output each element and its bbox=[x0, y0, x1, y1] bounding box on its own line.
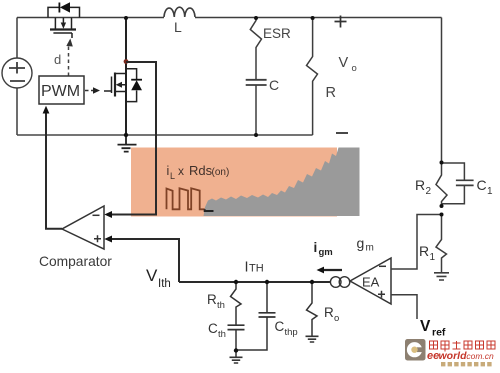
svg-text:R: R bbox=[324, 305, 334, 320]
node junction bottom rail / Q2 source ground bbox=[124, 133, 128, 137]
svg-text:i: i bbox=[314, 240, 318, 255]
capacitor Cth bbox=[208, 321, 245, 351]
svg-text:C: C bbox=[208, 321, 218, 336]
node label d bbox=[54, 52, 61, 67]
voltage source V_in bbox=[2, 58, 32, 88]
svg-text:1: 1 bbox=[430, 252, 436, 263]
node - output bbox=[336, 132, 348, 134]
svg-text:world: world bbox=[439, 350, 468, 362]
svg-text:Rds: Rds bbox=[189, 163, 213, 178]
watermark chinese title blocks bbox=[430, 341, 496, 352]
wire EA + input to Vref bbox=[391, 295, 417, 319]
svg-text:d: d bbox=[54, 52, 61, 67]
op-amp EA error amplifier bbox=[350, 258, 391, 304]
node R2 bottom / C1 bbox=[440, 204, 444, 208]
wire bottom rail bbox=[17, 134, 313, 136]
svg-text:g: g bbox=[357, 235, 365, 251]
ground under Cth bbox=[230, 351, 243, 364]
label V_Ith bbox=[146, 266, 171, 290]
watermark eeworld.com.cn bbox=[427, 350, 494, 362]
svg-text:x: x bbox=[178, 164, 184, 178]
label Vref bbox=[420, 318, 446, 339]
ground under R1 bbox=[434, 273, 449, 280]
svg-text:thp: thp bbox=[285, 327, 298, 338]
node ITH / Ro branch bbox=[310, 280, 314, 284]
current source gm output bbox=[330, 277, 349, 288]
resistor ESR bbox=[250, 18, 291, 79]
svg-text:th: th bbox=[217, 300, 225, 311]
node divider tap to EA - bbox=[440, 213, 444, 217]
svg-text:R: R bbox=[415, 177, 425, 193]
label i_gm with arrow bbox=[314, 240, 343, 273]
svg-text:th: th bbox=[218, 329, 226, 340]
capacitor Cthp bbox=[236, 282, 298, 350]
svg-text:2: 2 bbox=[426, 186, 432, 197]
svg-text:m: m bbox=[366, 243, 374, 254]
comparator U2 bbox=[62, 206, 104, 249]
node ITH / Cthp branch bbox=[265, 280, 269, 284]
svg-text:i: i bbox=[167, 164, 170, 178]
wire dashed gate d bbox=[66, 39, 73, 77]
transistor Q2 NMOS low-side bbox=[104, 18, 126, 136]
ground under Q2 bbox=[118, 135, 137, 152]
wire right feedback vertical bbox=[441, 18, 443, 163]
resistor R load bbox=[307, 18, 336, 135]
svg-text:L: L bbox=[170, 171, 175, 181]
svg-text:ref: ref bbox=[432, 327, 446, 339]
capacitor C output bbox=[246, 77, 279, 135]
transistor Q1 PMOS high-side bbox=[50, 18, 76, 39]
wire left vertical input bbox=[16, 18, 18, 136]
svg-text:Ith: Ith bbox=[158, 278, 171, 290]
wire comparator output to PWM bbox=[43, 106, 62, 229]
wire V_Ith to comparator + bbox=[104, 236, 179, 283]
watermark gray blob bbox=[204, 148, 360, 217]
svg-text:Comparator: Comparator bbox=[39, 254, 112, 269]
ground under Ro bbox=[306, 336, 319, 342]
wire ITH rail bbox=[179, 281, 331, 283]
node junction top rail / ESR branch bbox=[254, 16, 258, 20]
resistor Rth bbox=[207, 282, 241, 325]
svg-text:ESR: ESR bbox=[263, 26, 291, 41]
node ITH / Rth branch bbox=[234, 280, 238, 284]
svg-text:R: R bbox=[419, 243, 429, 259]
node junction top rail / Q2 drain bbox=[124, 16, 128, 20]
waveform iL x Rds(on) bbox=[167, 188, 205, 209]
svg-text:V: V bbox=[420, 318, 431, 335]
wire top rail bbox=[17, 17, 442, 19]
watermark eeworld logo bbox=[405, 339, 426, 361]
resistor R2 bbox=[415, 163, 447, 207]
node junction bottom rail / C branch bbox=[254, 133, 258, 137]
svg-text:V: V bbox=[146, 266, 158, 285]
svg-text:gm: gm bbox=[319, 247, 333, 258]
node junction top rail / R branch bbox=[311, 16, 315, 20]
svg-text:C: C bbox=[269, 77, 279, 93]
svg-text:R: R bbox=[326, 85, 336, 101]
watermark small slogan blocks bbox=[441, 362, 492, 366]
node switch SW red junction bbox=[124, 59, 129, 64]
svg-text:V: V bbox=[339, 55, 349, 71]
wire PWM dashed output to Q2 gate bbox=[85, 87, 100, 94]
svg-text:ee: ee bbox=[427, 350, 439, 362]
capacitor C1 bbox=[442, 163, 494, 204]
label Comparator bbox=[39, 254, 112, 269]
wire EA - input from divider bbox=[391, 215, 442, 270]
label V_o bbox=[339, 55, 357, 74]
svg-text:EA: EA bbox=[362, 275, 380, 290]
wire current sense from SW node to comparator bbox=[104, 62, 156, 218]
label gm bbox=[357, 235, 374, 254]
PWM block U1 bbox=[39, 76, 84, 104]
svg-text:TH: TH bbox=[249, 263, 264, 275]
waveform tail step bbox=[205, 209, 214, 211]
node Vo feedback / R2 top bbox=[440, 161, 444, 165]
svg-text:PWM: PWM bbox=[41, 83, 80, 100]
svg-text:o: o bbox=[352, 63, 357, 74]
resistor R1 bbox=[419, 215, 447, 273]
svg-text:o: o bbox=[334, 313, 339, 324]
label iL x Rds(on) bbox=[167, 163, 230, 181]
svg-text:(on): (on) bbox=[212, 167, 230, 178]
resistor Ro bbox=[307, 282, 340, 336]
highlight box i_L x Rds(on) bbox=[131, 148, 337, 217]
svg-text:C: C bbox=[477, 177, 487, 193]
svg-text:R: R bbox=[207, 292, 217, 307]
diode D1 body of Q1 bbox=[48, 2, 80, 17]
svg-text:.com.cn: .com.cn bbox=[464, 351, 494, 361]
node Cth / Cthp ground junction bbox=[234, 348, 238, 352]
inductor L bbox=[164, 7, 195, 35]
label ITH bbox=[245, 260, 264, 276]
svg-text:I: I bbox=[245, 260, 249, 276]
svg-text:L: L bbox=[174, 19, 182, 35]
node + output bbox=[335, 16, 347, 28]
svg-text:1: 1 bbox=[487, 186, 493, 197]
svg-text:C: C bbox=[275, 319, 285, 334]
diode D2 body of Q2 bbox=[126, 69, 142, 102]
